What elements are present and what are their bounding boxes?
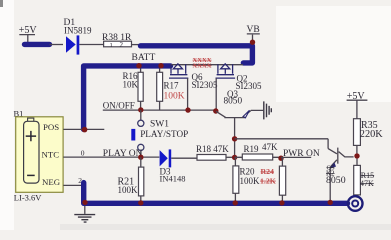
wire: net line through Q6 and Q2 <box>171 64 244 66</box>
wire: ON/OFF bus <box>103 109 216 111</box>
resistor R22 <box>279 158 285 203</box>
wire: NTC / PLAY ON net <box>63 156 159 158</box>
svg-text:1.2K: 1.2K <box>260 176 276 185</box>
connector pad <box>348 196 363 211</box>
diode D3 IN4148 <box>160 149 186 183</box>
transistor Q2 SI2305 <box>216 64 263 91</box>
svg-text:PLAY ON: PLAY ON <box>103 149 143 159</box>
wire: D3 to R18 <box>171 157 197 159</box>
svg-text:220K: 220K <box>360 129 383 140</box>
junction dots on ground rail <box>138 200 143 205</box>
svg-text:R24: R24 <box>261 167 275 176</box>
svg-text:10K: 10K <box>123 80 139 90</box>
svg-text:1: 1 <box>110 42 113 49</box>
wire: R38 to VB rail (thin) <box>132 44 142 46</box>
node VB <box>247 25 260 45</box>
+5V power label (left) <box>19 25 38 42</box>
battery B1 <box>14 109 64 203</box>
node POS junction <box>82 127 88 133</box>
svg-text:R17: R17 <box>164 80 180 90</box>
svg-text:IN5819: IN5819 <box>64 25 92 35</box>
svg-text:PLAY/STOP: PLAY/STOP <box>140 129 188 139</box>
svg-text:PWR ON: PWR ON <box>283 149 320 159</box>
svg-text:LI-3.6V: LI-3.6V <box>14 192 42 202</box>
svg-text:SI2305: SI2305 <box>192 80 219 90</box>
resistor R21 100K <box>118 157 144 203</box>
resistor R15 47K <box>354 159 374 198</box>
svg-text:8050: 8050 <box>326 175 346 186</box>
wire: D1 to R38 <box>79 44 103 46</box>
resistor R35 220K <box>354 119 384 154</box>
wire: R18 to junction <box>226 156 235 158</box>
resistor R20 100K <box>233 157 260 203</box>
node Q3 emitter junction <box>232 136 237 141</box>
svg-text:IN4148: IN4148 <box>160 173 186 183</box>
svg-text:8050: 8050 <box>224 96 243 106</box>
svg-text:XXXX: XXXX <box>193 62 212 69</box>
wire: Q3 collector drop <box>234 139 236 158</box>
wire: POS pin <box>63 128 104 130</box>
resistor R19 47K <box>235 142 281 160</box>
svg-text:2: 2 <box>120 41 124 49</box>
wire: thick BATT rail from battery up-corner <box>84 66 171 129</box>
wire: +5V thick bar <box>25 42 50 47</box>
svg-text:SW1: SW1 <box>150 119 169 129</box>
resistor R38 1R <box>102 33 132 49</box>
switch SW1 PLAY/STOP <box>131 110 188 157</box>
wire: Q3 to Q5 <box>235 138 329 140</box>
wire: Q6 gate pin down to bus <box>187 78 189 110</box>
wire: thick VB rail with corner down to Q2 <box>141 46 253 63</box>
red struck note above Q6 <box>193 57 212 70</box>
svg-text:ON/OFF: ON/OFF <box>103 100 135 110</box>
svg-text:R19: R19 <box>244 144 260 154</box>
wire: NEG pin <box>63 184 83 186</box>
ground <box>74 206 95 222</box>
svg-text:100K: 100K <box>164 91 185 101</box>
transistor Q6 SI2305 <box>169 64 218 90</box>
wire: PWR ON stub <box>281 156 311 158</box>
svg-text:NEG: NEG <box>42 177 61 187</box>
+5V power label (right) <box>347 91 368 119</box>
node R18/R19 junction <box>232 155 237 160</box>
node PWR ON junction <box>278 156 283 161</box>
ground (rotated) <box>264 101 272 119</box>
svg-text:SI2305: SI2305 <box>236 81 263 91</box>
svg-text:100K: 100K <box>240 176 261 186</box>
wire: thick NEG drop and ground rail <box>84 183 348 204</box>
svg-text:BATT: BATT <box>132 53 156 63</box>
svg-text:POS: POS <box>43 122 59 132</box>
svg-text:100K: 100K <box>118 185 139 195</box>
node NEG corner <box>82 200 87 205</box>
resistor R16 10K <box>123 69 144 111</box>
resistor R17 100K <box>157 69 185 111</box>
svg-text:0: 0 <box>81 148 85 157</box>
transistor Q5 8050 <box>326 139 354 201</box>
svg-text:47K: 47K <box>262 142 278 152</box>
diode D1 IN5819 <box>64 18 92 55</box>
node R35/R15 junction <box>354 153 359 158</box>
svg-text:47K: 47K <box>360 179 374 188</box>
junction dots on BATT rail <box>136 63 141 68</box>
transistor Q3 8050 <box>216 89 263 139</box>
red struck note R22 <box>260 167 276 185</box>
resistor R18 47K <box>196 144 229 160</box>
svg-text:R18 47K: R18 47K <box>196 144 229 154</box>
wire: Q2 gate pin down <box>215 78 217 111</box>
svg-text:NTC: NTC <box>42 149 60 159</box>
wire: bar to D1 <box>50 44 64 46</box>
